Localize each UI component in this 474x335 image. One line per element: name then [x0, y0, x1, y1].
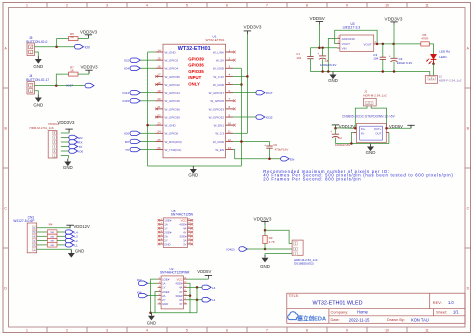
connector J5 — [27, 43, 35, 56]
resistor R4 element 3 — [47, 238, 57, 242]
wire netport IO4 to pin16 — [140, 67, 155, 69]
wire 3OE# stub — [187, 295, 190, 297]
svg-text:1: 1 — [26, 4, 28, 8]
svg-text:IO17: IO17 — [66, 84, 73, 88]
connector J2 — [425, 76, 437, 84]
svg-text:3OE#: 3OE# — [175, 294, 183, 298]
netport IO0 pin24 — [124, 131, 140, 136]
svg-text:9: 9 — [346, 4, 348, 8]
svg-text:VDD3V3: VDD3V3 — [254, 216, 272, 221]
svg-text:3Y: 3Y — [179, 302, 183, 306]
svg-text:RX: RX — [78, 140, 82, 144]
svg-text:13: 13 — [228, 146, 232, 150]
svg-text:4: 4 — [146, 4, 148, 8]
wire J4 pin1 to GND — [35, 91, 39, 95]
svg-text:220uF 6.3V: 220uF 6.3V — [397, 61, 413, 65]
junction R9 top — [264, 229, 267, 232]
svg-text:W_GND: W_GND — [213, 140, 225, 144]
ground GND DS18B20 — [260, 255, 270, 269]
svg-text:+: + — [389, 54, 391, 58]
svg-text:VDD3V3: VDD3V3 — [244, 25, 262, 30]
junction node IO17 wire — [55, 84, 58, 87]
svg-text:VDD3V3: VDD3V3 — [57, 120, 75, 125]
wire GND rail regulator — [310, 71, 429, 73]
wire R4 to netport L3 — [57, 235, 65, 237]
svg-text:8: 8 — [306, 4, 308, 8]
svg-text:L1: L1 — [212, 298, 216, 302]
svg-text:W_GND: W_GND — [213, 67, 225, 71]
wire C4 bottom stub — [393, 62, 395, 72]
capacitor C2 — [330, 130, 342, 140]
svg-text:10: 10 — [385, 329, 389, 333]
power VDD12V CN1 — [66, 224, 90, 229]
power VDD5V output — [389, 124, 415, 129]
svg-text:W_GPIO5: W_GPIO5 — [210, 99, 224, 103]
wire W_GPIO17 pin6 to netport — [233, 92, 256, 94]
wire C1 bottom stub — [309, 59, 311, 72]
power VDD3V3 above U1 — [244, 25, 262, 34]
junction VDD bus pin4 — [246, 75, 249, 78]
svg-text:OUT: OUT — [375, 131, 381, 135]
wire CN1 pin5 to R4 element — [37, 231, 48, 233]
svg-text:SN74HCT125N: SN74HCT125N — [171, 213, 194, 217]
wire IO4 to 2A — [148, 295, 158, 297]
title block REV — [433, 300, 455, 305]
power VDD3V3 DS18B20 — [254, 216, 272, 224]
capacitor C8 — [317, 52, 336, 67]
title block frame — [287, 293, 465, 323]
svg-text:W_GPIO35: W_GPIO35 — [165, 75, 181, 79]
svg-text:23: 23 — [157, 121, 161, 125]
connector PROG1 label — [30, 122, 60, 130]
wire VDD12V to IN+ — [336, 125, 354, 128]
wire PROG pin6 to VDD3V3 — [61, 129, 69, 133]
svg-text:LM1117-3.3: LM1117-3.3 — [343, 26, 361, 30]
wire C8 bottom stub — [322, 59, 324, 71]
connector J4 label — [26, 74, 49, 82]
no-connect pin18 — [155, 83, 158, 86]
wire VOUT feedback loop — [335, 30, 377, 44]
svg-text:WJ127-5.0-6P: WJ127-5.0-6P — [13, 219, 35, 223]
svg-text:J5: J5 — [29, 36, 33, 40]
wire W_EN pin13 to netport EN — [233, 150, 281, 159]
no-connect pin10 — [233, 124, 236, 127]
ground GND PROG — [63, 159, 73, 171]
svg-text:GND: GND — [162, 302, 168, 306]
netport IO0 — [69, 149, 84, 154]
svg-text:1.0: 1.0 — [448, 300, 454, 305]
svg-text:1OE#: 1OE# — [162, 277, 170, 281]
svg-text:IO0: IO0 — [85, 45, 90, 49]
wire IO2 to 1A — [148, 282, 158, 284]
wire netport TX to pin26 — [140, 149, 155, 151]
resistor R4 element 1 — [47, 230, 57, 234]
svg-text:WT32-ETH01: WT32-ETH01 — [178, 46, 211, 52]
wire CN1 pin3 to R4 element — [37, 240, 48, 242]
svg-text:J1: J1 — [364, 89, 368, 93]
svg-text:VDD5V: VDD5V — [310, 16, 326, 21]
svg-text:11: 11 — [425, 329, 429, 333]
junction input rail VDD5V — [318, 46, 321, 49]
wire W_3.3 pin11 — [233, 132, 247, 134]
wire C2 bottom stub — [335, 138, 337, 144]
svg-text:VDD5V: VDD5V — [197, 269, 211, 274]
junction left bus pin23 — [146, 124, 149, 127]
svg-text:470R: 470R — [421, 36, 429, 40]
svg-text:W_GPIO39: W_GPIO39 — [165, 115, 181, 119]
netport IO4 pin16 — [124, 66, 140, 71]
logo JLC EDA — [288, 312, 326, 323]
svg-text:W_GND: W_GND — [165, 124, 177, 128]
svg-text:VIN: VIN — [342, 47, 347, 51]
svg-text:4.7K: 4.7K — [269, 240, 275, 244]
resistor R5 — [69, 32, 79, 40]
svg-text:L4: L4 — [212, 286, 216, 290]
netport IO2 U2 — [137, 278, 148, 285]
title block Sheet — [436, 310, 459, 315]
ground GND U1 — [188, 166, 198, 178]
svg-text:GPIO35: GPIO35 — [188, 69, 204, 74]
svg-text:L3: L3 — [74, 235, 78, 239]
wire J5 pin2 to node — [35, 46, 75, 48]
regulator U3 body — [340, 35, 374, 51]
svg-text:4Y: 4Y — [183, 230, 187, 234]
svg-text:VDD5V: VDD5V — [389, 124, 403, 129]
no-connect pin8 — [233, 108, 236, 111]
connector P1 DS18B20 — [292, 240, 303, 256]
svg-text:W_GPIO2: W_GPIO2 — [165, 59, 179, 63]
svg-text:W_GPIO32: W_GPIO32 — [209, 115, 225, 119]
svg-text:L4: L4 — [74, 230, 78, 234]
svg-text:WT32-ETH01 WLED: WT32-ETH01 WLED — [312, 301, 362, 307]
netport EN — [69, 135, 83, 140]
svg-text:104: 104 — [373, 57, 378, 61]
wire R5 to VDD3V3 — [78, 35, 88, 38]
svg-text:11: 11 — [228, 130, 231, 134]
wire input rail — [310, 47, 337, 49]
wire output rail — [376, 43, 421, 45]
IC U1 left pins — [155, 48, 181, 152]
svg-text:W_GPIO36: W_GPIO36 — [165, 107, 181, 111]
svg-text:24: 24 — [157, 130, 161, 134]
svg-text:HDR-M-2.54_1x6: HDR-M-2.54_1x6 — [30, 126, 54, 130]
svg-text:3: 3 — [106, 329, 108, 333]
svg-text:15: 15 — [157, 56, 161, 60]
svg-text:OUT+: OUT+ — [374, 127, 382, 131]
net name IO17 — [66, 84, 73, 88]
svg-text:1: 1 — [26, 329, 28, 333]
svg-text:IO32: IO32 — [266, 116, 273, 120]
svg-text:12: 12 — [228, 138, 232, 142]
svg-text:11: 11 — [425, 4, 429, 8]
svg-text:W_5V: W_5V — [216, 59, 224, 63]
svg-text:14: 14 — [157, 48, 161, 52]
junction OUT+ J1 — [385, 127, 388, 130]
wire data to header pin2 — [247, 248, 292, 250]
svg-text:IO4(2): IO4(2) — [226, 248, 234, 252]
junction output VDD3V3 — [392, 43, 395, 46]
wire netport IO14 to pin19 — [140, 92, 155, 94]
wire right GND bus — [240, 68, 242, 166]
power VDD5V input — [310, 16, 326, 24]
svg-text:17: 17 — [157, 73, 161, 77]
power VDD3V3 PROG — [57, 120, 75, 132]
svg-text:Date:: Date: — [331, 317, 340, 322]
wire CN1 pin2 to R4 element — [37, 244, 48, 246]
svg-text:1K: 1K — [70, 35, 74, 39]
no-connect pin2 — [233, 59, 236, 62]
connector J5 label — [26, 36, 47, 44]
svg-text:10: 10 — [228, 121, 232, 125]
svg-text:W_GND: W_GND — [165, 50, 177, 54]
svg-text:VDD3V3: VDD3V3 — [385, 17, 403, 22]
svg-text:W_GPIO4: W_GPIO4 — [165, 67, 179, 71]
regulator U3 label — [343, 22, 361, 30]
netport L1 — [65, 243, 78, 248]
netport L4 — [202, 285, 216, 290]
resistor R4 label — [49, 223, 53, 227]
svg-text:W_TX0(IO1): W_TX0(IO1) — [165, 148, 182, 152]
svg-text:6: 6 — [226, 329, 228, 333]
svg-text:GPIO39: GPIO39 — [188, 57, 204, 62]
svg-text:ONLY: ONLY — [188, 81, 200, 86]
svg-text:TX: TX — [125, 148, 129, 152]
svg-text:W_3.3: W_3.3 — [215, 132, 224, 136]
wire netport IO15 to pin20 — [140, 100, 155, 102]
svg-text:+: + — [330, 130, 332, 134]
svg-text:GPIO36: GPIO36 — [188, 63, 204, 68]
svg-text:LED Rd: LED Rd — [439, 49, 450, 53]
wire C6 top stub — [269, 141, 271, 146]
wire right OE bus to gnd — [196, 287, 198, 312]
svg-text:2A: 2A — [164, 234, 168, 238]
junction output C3 — [382, 43, 385, 46]
svg-text:IO2: IO2 — [124, 59, 129, 63]
regulator U3 pins — [337, 36, 376, 48]
svg-text:VOUT: VOUT — [363, 43, 372, 47]
svg-text:18: 18 — [157, 81, 161, 85]
wire J4 pin2 to netport — [35, 85, 86, 87]
resistor R6 — [421, 33, 430, 46]
wire OUT to gnd rail — [388, 133, 390, 144]
connector CN1 — [27, 223, 37, 253]
svg-text:4A: 4A — [179, 286, 183, 290]
IC U5 no-connect marks — [158, 219, 194, 245]
title block DrawnBy — [387, 317, 429, 322]
netport IO2 pin15 — [124, 58, 140, 63]
svg-text:2Y: 2Y — [162, 298, 166, 302]
wire W_GND pin12 to C6 — [233, 140, 269, 142]
svg-text:2OE#: 2OE# — [164, 230, 172, 234]
wire node up to R7 — [56, 74, 68, 86]
wire netport IO2 to pin15 — [140, 59, 155, 61]
svg-text:Sheet:: Sheet: — [436, 310, 447, 315]
no-connect pin17 — [155, 75, 158, 78]
svg-text:W_3.3V: W_3.3V — [213, 75, 224, 79]
svg-text:9: 9 — [346, 329, 348, 333]
wire R4 to netport L1 — [57, 244, 65, 246]
netport RX pin25 — [125, 139, 140, 144]
svg-text:4A: 4A — [183, 227, 187, 231]
no-connect pin21 — [155, 108, 158, 111]
svg-text:25: 25 — [157, 138, 161, 142]
svg-text:16: 16 — [157, 65, 161, 69]
capacitor C1 — [296, 52, 313, 60]
svg-text:3: 3 — [106, 4, 108, 8]
svg-text:1K: 1K — [70, 68, 74, 72]
ground GND CN1 — [68, 249, 84, 258]
IC U1 right pins — [209, 48, 233, 152]
svg-text:W_GPIO14: W_GPIO14 — [165, 91, 181, 95]
wire R4 to netport L4 — [57, 231, 65, 233]
svg-text:VCC: VCC — [181, 219, 187, 223]
svg-text:HDR-F-2.54_1x2: HDR-F-2.54_1x2 — [439, 79, 462, 83]
wire 4A to netport L4 — [187, 286, 202, 288]
svg-text:GND: GND — [63, 165, 73, 170]
junction EN wire C6 — [268, 158, 271, 161]
svg-text:5: 5 — [186, 4, 188, 8]
netport EN — [281, 157, 295, 162]
wire netport RX to pin25 — [140, 140, 155, 142]
capacitor C4 — [389, 54, 413, 65]
junction gnd C8 — [321, 70, 324, 73]
svg-text:GND: GND — [260, 264, 270, 269]
junction right bus pin12 — [240, 140, 243, 143]
connector J2 label — [439, 75, 462, 83]
svg-text:3A: 3A — [183, 238, 187, 242]
wire DCDC gnd rail — [336, 143, 389, 145]
svg-text:1A: 1A — [164, 223, 168, 227]
connector J1 — [364, 98, 377, 106]
svg-text:W_GPIO12: W_GPIO12 — [165, 83, 181, 87]
wire 1OE# to gnd — [151, 279, 158, 313]
wire R9 bottom — [264, 244, 266, 250]
svg-text:6: 6 — [226, 4, 228, 8]
svg-text:IO0: IO0 — [78, 149, 83, 153]
wire C2 top stub — [335, 128, 337, 134]
wire J1 pin2 to OUT+ — [371, 106, 386, 128]
svg-text:1Y: 1Y — [164, 227, 168, 231]
wire W_GPIO32 pin9 to netport — [233, 116, 256, 118]
svg-text:IO15: IO15 — [122, 99, 129, 103]
svg-text:4OE#: 4OE# — [179, 223, 187, 227]
svg-text:Company:: Company: — [331, 310, 349, 315]
wire R4 to netport L2 — [57, 240, 65, 242]
svg-text:7: 7 — [266, 329, 268, 333]
wire 4OE# to gnd — [187, 283, 190, 313]
wire VDD3V3 output stem — [393, 25, 395, 44]
svg-text:19: 19 — [157, 89, 161, 93]
netport L3 — [65, 234, 78, 239]
netport IO15 pin20 — [122, 99, 140, 104]
wire VDD to header pin3 — [265, 230, 292, 243]
no-connect pin22 — [155, 116, 158, 119]
wire C4 top stub — [393, 44, 395, 58]
wire GND rail to J2 pin2 — [429, 72, 431, 76]
wire W_GND pin23 to left bus — [148, 124, 156, 126]
connector P1 label — [294, 258, 318, 266]
junction gnd C3 — [382, 70, 385, 73]
svg-text:IN-: IN- — [361, 131, 365, 135]
svg-text:L1: L1 — [74, 243, 78, 247]
wire VDD3V3 stem DS18B20 — [264, 225, 266, 236]
connector J4 — [27, 82, 35, 95]
power VDD3V3 output — [385, 17, 403, 25]
svg-text:IO4: IO4 — [124, 67, 129, 71]
ground GND regulator — [328, 72, 338, 84]
netport L1 — [202, 298, 216, 303]
module U4 DCDC body — [356, 124, 386, 143]
wire ADJ/GND to ground — [328, 38, 337, 71]
junction node IO0 wire — [55, 45, 58, 48]
IC U2 label — [160, 267, 190, 275]
wire PROG pin2 to netport IO0 — [61, 150, 69, 152]
title block TITLE — [288, 294, 362, 306]
IC U5 label — [171, 209, 194, 217]
svg-text:GND: GND — [33, 103, 43, 108]
svg-text:IO0: IO0 — [124, 132, 129, 136]
wire C6 bottom stub — [269, 148, 271, 159]
svg-text:20: 20 — [157, 97, 161, 101]
capacitor C3 — [373, 53, 386, 61]
svg-text:IO17: IO17 — [266, 91, 273, 95]
netport L2 — [65, 239, 78, 244]
IC U5 body — [160, 218, 191, 248]
svg-text:C2: C2 — [338, 136, 342, 140]
IC U2 body — [158, 276, 188, 309]
resistor R4 element 2 — [47, 234, 57, 238]
wire J5 pin1 to GND — [35, 52, 39, 56]
svg-text:3OE#: 3OE# — [179, 234, 187, 238]
svg-text:GND: GND — [164, 242, 170, 246]
power VDD3V3 button2 — [81, 65, 99, 74]
svg-text:20 Frames Per Second: 800 pixe: 20 Frames Per Second: 800 pixels/pin — [263, 176, 361, 181]
svg-text:GND: GND — [33, 64, 43, 69]
svg-text:10: 10 — [385, 4, 389, 8]
wire PROG pin1 to GND — [61, 156, 69, 159]
svg-text:GND: GND — [188, 173, 198, 178]
svg-text:J2: J2 — [439, 75, 443, 79]
wire W_GND pin3 to right bus — [233, 67, 241, 69]
wire PROG pin4 to netport RX — [61, 141, 69, 143]
svg-text:SN74AHCT125PWR: SN74AHCT125PWR — [160, 271, 190, 275]
svg-text:VDD3V3: VDD3V3 — [81, 65, 99, 70]
no-connect pin1 — [233, 51, 236, 54]
wire C3 top stub — [382, 44, 384, 57]
svg-text:LED1: LED1 — [439, 55, 447, 59]
wire VDD5V stem — [318, 25, 320, 48]
ground GND DCDC — [366, 144, 376, 156]
svg-text:1A: 1A — [162, 282, 166, 286]
wire left GND bus — [147, 52, 149, 166]
svg-text:GND: GND — [328, 78, 338, 83]
ground GND U2 — [147, 313, 156, 326]
svg-text:VOUT: VOUT — [342, 42, 351, 46]
wire netport IO0 to pin24 — [140, 132, 155, 134]
wire W_3.3V pin4 — [233, 75, 247, 77]
wire VDD3V3 bus vertical — [246, 31, 248, 133]
wire u2 gnd rail — [151, 312, 198, 314]
svg-text:KON TAU: KON TAU — [411, 317, 429, 322]
svg-text:GND: GND — [75, 249, 84, 254]
svg-text:3A: 3A — [179, 298, 183, 302]
svg-text:TITLE:: TITLE: — [288, 294, 299, 298]
svg-text:4Y: 4Y — [179, 290, 183, 294]
svg-text:TX: TX — [78, 145, 82, 149]
junction gnd C4 — [393, 70, 396, 73]
wire CN1 pin1 to GND — [37, 248, 72, 251]
svg-text:W_LINK: W_LINK — [213, 50, 224, 54]
